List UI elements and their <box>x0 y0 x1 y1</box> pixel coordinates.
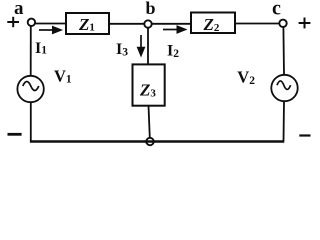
source V2 <box>271 75 297 101</box>
impedance Z1 <box>66 13 109 34</box>
wire a down to V1 <box>30 26 32 76</box>
source V1 <box>17 76 43 102</box>
minus sign right <box>299 134 310 136</box>
wire Z2 to c <box>235 23 279 25</box>
bottom rail wire <box>30 140 284 143</box>
wire b to Z2 <box>152 23 191 25</box>
node c <box>279 20 286 27</box>
wire b down to Z3 <box>147 28 149 65</box>
plus sign left <box>7 17 19 27</box>
wire V2 to bottom rail <box>283 101 286 141</box>
node b <box>144 20 151 27</box>
current arrow I2 <box>163 25 188 34</box>
current arrow I3 <box>137 35 146 58</box>
wire V1 to bottom rail <box>30 102 32 141</box>
wire a to Z1 <box>35 23 66 25</box>
wire c down to V2 <box>282 27 285 76</box>
minus sign left <box>8 133 22 136</box>
wire Z1 to b <box>109 23 144 25</box>
current arrow I1 <box>39 26 63 35</box>
bottom node junction <box>146 138 153 145</box>
svg-text:c: c <box>272 0 281 20</box>
impedance Z3 <box>133 64 165 105</box>
node a <box>28 19 35 26</box>
wire Z3 to bottom node <box>149 106 150 138</box>
svg-text:b: b <box>145 0 155 18</box>
impedance Z2 <box>191 13 235 34</box>
svg-text:a: a <box>14 0 24 19</box>
plus sign right <box>299 18 311 29</box>
